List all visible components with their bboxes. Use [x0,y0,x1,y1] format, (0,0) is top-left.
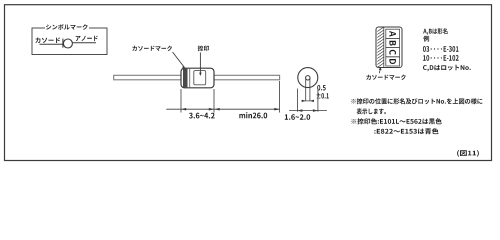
leader to stamp area [199,53,202,77]
arrowheads dia 0.5 [302,100,315,103]
symbol-mark box [32,24,107,55]
marking box D [386,57,400,66]
band edge line [189,69,191,88]
lead wire right [214,75,280,80]
marking box C [386,48,400,57]
diode D1 cathode bar [62,39,64,48]
dimension text 0.5 [317,85,325,91]
arrowheads dimension 3.6~4.2 [181,108,214,111]
leader package cathode [379,67,382,74]
arrowheads 1.6~2.0 [297,109,318,112]
label アノード (symbol) [76,36,98,42]
dimension line [166,108,279,110]
dimension line 1.6~2.0 [289,110,327,112]
dimension text 1.6~2.0 [285,114,310,120]
note 例 [423,36,429,42]
cathode band [183,69,188,88]
marking box A [386,29,400,38]
extension lines lead dia 0.5 [306,79,310,102]
extension line body right [213,89,215,113]
marking box B [386,38,400,47]
end view outer circle [298,68,318,88]
dimension text min26.0 [239,112,267,118]
label カソード (symbol) [35,38,60,44]
label カソードマーク (body) [132,46,172,51]
note line 3 [351,118,441,124]
dimension text ±0.1 [317,93,329,99]
package outline [376,27,402,68]
extension line lead end [279,81,281,113]
diode body [181,68,214,88]
note A,Bは形名 [423,28,447,35]
label 捺印 [198,46,209,52]
note line 2 [357,108,386,114]
figure number (図11) [457,150,479,157]
arrowheads dimension min26.0 [215,108,280,111]
note line 1 [351,98,482,104]
note C,DはロットNo. [423,65,471,72]
stamp area rect [194,71,206,85]
lead wire left [114,75,181,80]
leader to cathode band [173,52,186,69]
extension line body left [180,89,182,113]
diode D1 body circle [63,39,72,48]
extension lines body dia 1.6~2.0 [297,89,318,112]
label シンボルマーク [46,24,88,30]
wire (symbol cathode side) [40,43,63,45]
dimension text 3.6~4.2 [189,113,215,119]
cathode hatch band [377,27,384,68]
label カソードマーク (package) [366,75,405,80]
wire (symbol anode side) [72,42,96,44]
end view lead circle [306,76,310,80]
note line 4 [374,128,438,134]
